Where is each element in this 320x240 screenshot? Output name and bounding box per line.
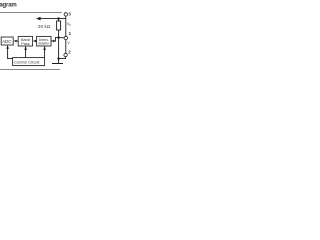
svg-text:Control Circuit: Control Circuit xyxy=(14,59,40,64)
svg-text:dulator: dulator xyxy=(38,42,50,46)
node B (junction dot, resistor bottom) xyxy=(57,36,59,38)
top rule xyxy=(0,12,62,14)
block U3 Demodulator xyxy=(37,36,51,46)
node A (junction dot on top wire) xyxy=(57,17,59,19)
wire: control to ADC xyxy=(8,46,13,59)
bottom rule xyxy=(0,69,60,71)
wire: demodulator to band pass with arrowhead xyxy=(35,40,37,42)
wire: band pass to ADC with arrowhead xyxy=(16,40,18,42)
svg-text:ADC: ADC xyxy=(2,39,11,44)
wire: control to band pass xyxy=(25,46,27,57)
resistor R (30 kOhm) xyxy=(58,19,60,21)
wire: resistor bottom to lower node xyxy=(58,30,60,64)
arrowhead into demodulator xyxy=(51,40,54,43)
block U2 Band Pass xyxy=(18,36,32,46)
pin 1 circle xyxy=(64,36,67,39)
wire: right vertical between pin3 and pin1 xyxy=(65,16,67,36)
wire: top signal wire xyxy=(37,18,66,20)
svg-text:Pass: Pass xyxy=(21,42,30,46)
block U1 ADC xyxy=(1,37,13,45)
svg-text:agram: agram xyxy=(0,2,17,8)
wire: node B to demodulator input xyxy=(51,38,58,41)
wire: control to demodulator xyxy=(44,46,46,57)
wire: pin2 tail to junction xyxy=(59,57,66,59)
wire: right vertical between pin1 and pin2 xyxy=(65,40,67,54)
wire: node B to pin1 xyxy=(59,37,65,39)
node C (junction dot, pin2 tee) xyxy=(57,57,59,59)
pin 2 circle xyxy=(64,53,67,56)
pin 3 circle xyxy=(64,13,67,16)
svg-text:30 kΩ: 30 kΩ xyxy=(38,24,51,29)
ground bar xyxy=(52,63,63,65)
block U4 Control Circuit xyxy=(13,58,45,66)
arrowhead (signal direction, pointing left) xyxy=(36,17,41,21)
